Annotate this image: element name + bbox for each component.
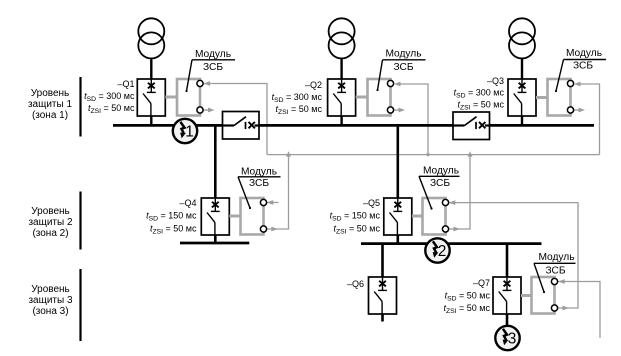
svg-text:–Q7: –Q7 bbox=[473, 278, 490, 288]
svg-text:Модуль: Модуль bbox=[195, 49, 231, 60]
wire module M2 input riser bbox=[398, 84, 428, 155]
wire Q6 feeder tail bbox=[381, 314, 384, 322]
arrow into M1 input bbox=[204, 81, 211, 86]
busbar section 3 (zone 1 right) bbox=[490, 124, 595, 127]
svg-text:защиты 1: защиты 1 bbox=[28, 99, 73, 110]
wire Q2 to bus bbox=[340, 116, 342, 126]
wire Q1 to bus bbox=[150, 116, 152, 126]
busbar section 2 (zone 1 middle) bbox=[259, 124, 454, 127]
svg-text:Модуль: Модуль bbox=[538, 252, 574, 263]
svg-text:Модуль: Модуль bbox=[423, 166, 459, 177]
wire M7 input stub bbox=[558, 282, 600, 339]
circuit breaker Q7 bbox=[493, 277, 521, 314]
zone 2 label text bbox=[28, 206, 73, 239]
arrow M4 riser junction bbox=[286, 151, 291, 156]
wire M1 output stub bbox=[203, 109, 208, 111]
wire ZSI cascade horizontal bbox=[267, 154, 600, 156]
wire module M5 output riser bbox=[449, 155, 470, 229]
module M1 label bbox=[185, 49, 235, 92]
ZSB module M3 bbox=[548, 79, 574, 116]
wire bus2 to Q6 bbox=[381, 244, 384, 277]
arrow M5 output bbox=[454, 227, 461, 232]
breaker Q7 labels bbox=[443, 278, 490, 315]
svg-text:Модуль: Модуль bbox=[241, 167, 277, 178]
ZSB module M4 bbox=[241, 198, 267, 235]
svg-text:Модуль: Модуль bbox=[566, 48, 602, 59]
wire Q7 to fault 3 bbox=[506, 314, 509, 326]
circuit breaker Q6 bbox=[369, 277, 397, 314]
zone 1 bracket bar bbox=[79, 77, 81, 137]
circuit breaker Q1 bbox=[137, 79, 165, 116]
wire M2 output stub bbox=[394, 109, 399, 111]
arrow into M3 input bbox=[574, 82, 581, 87]
svg-text:ЗСБ: ЗСБ bbox=[545, 266, 565, 277]
transformer T3 bbox=[509, 18, 535, 79]
arrow M3 output bbox=[579, 108, 586, 113]
svg-text:ЗСБ: ЗСБ bbox=[203, 62, 223, 73]
svg-text:Уровень: Уровень bbox=[31, 88, 70, 99]
svg-text:–Q3: –Q3 bbox=[487, 76, 504, 86]
wire module M1 input riser bbox=[204, 84, 267, 155]
svg-text:защиты 2: защиты 2 bbox=[28, 217, 73, 228]
circuit breaker Q4 bbox=[201, 198, 229, 235]
wire bus to Q4 bbox=[214, 125, 217, 198]
wire M3 output stub bbox=[574, 109, 579, 111]
svg-text:Уровень: Уровень bbox=[31, 206, 70, 217]
circuit breaker Q3 bbox=[508, 79, 536, 116]
arrow M4 output bbox=[271, 227, 278, 232]
svg-text:ЗСБ: ЗСБ bbox=[573, 61, 593, 72]
ZSB module M5 bbox=[423, 198, 449, 235]
wire module M4 input stub bbox=[267, 202, 279, 204]
wire Q7 to module M7 bbox=[521, 294, 532, 297]
arrow into M7 input bbox=[558, 279, 565, 284]
svg-text:–Q5: –Q5 bbox=[363, 198, 380, 208]
circuit breaker Q5 bbox=[384, 198, 412, 235]
fault indicator 2 bbox=[425, 238, 449, 262]
busbar stub under Q4 (zone 2 left) bbox=[180, 242, 249, 245]
wire Q4 to stub bus bbox=[214, 235, 217, 243]
breaker Q2 labels bbox=[272, 80, 323, 116]
ZSB module M1 bbox=[177, 79, 203, 116]
arrow M5 riser junction bbox=[468, 151, 473, 156]
svg-text:–Q2: –Q2 bbox=[305, 80, 322, 90]
arrow M1 output bbox=[208, 108, 215, 113]
wire module M3 input riser bbox=[577, 84, 600, 155]
wire Q1 to module M1 bbox=[165, 96, 177, 99]
ZSB module M2 bbox=[368, 79, 394, 116]
wire M7 output to M5 input bbox=[449, 203, 578, 308]
zone 2 bracket bar bbox=[79, 192, 81, 250]
circuit breaker Q2 bbox=[328, 79, 356, 116]
svg-text:–Q1: –Q1 bbox=[117, 79, 134, 89]
busbar zone 2 bbox=[361, 242, 542, 245]
svg-text:(зона 2): (зона 2) bbox=[32, 228, 68, 239]
svg-text:ЗСБ: ЗСБ bbox=[430, 178, 450, 189]
svg-text:(зона 1): (зона 1) bbox=[32, 110, 68, 121]
svg-text:3: 3 bbox=[508, 330, 517, 347]
breaker Q3 labels bbox=[454, 76, 505, 112]
module M5 label bbox=[419, 166, 460, 210]
wire Q5 to module M5 bbox=[412, 215, 423, 218]
svg-text:1: 1 bbox=[185, 123, 194, 140]
svg-text:защиты 3: защиты 3 bbox=[28, 295, 73, 306]
wire bus2 to Q7 bbox=[506, 244, 509, 277]
transformer T2 bbox=[329, 18, 355, 79]
module M3 label bbox=[555, 48, 606, 92]
zone 3 label text bbox=[28, 284, 73, 317]
arrow M2 output bbox=[399, 108, 406, 113]
zone 3 bracket bar bbox=[79, 269, 81, 341]
wire Q4 to module M4 bbox=[229, 215, 240, 218]
svg-text:(зона 3): (зона 3) bbox=[32, 306, 68, 317]
module M2 label bbox=[376, 49, 425, 92]
module M4 label bbox=[238, 167, 281, 210]
wire module M4 output riser bbox=[267, 155, 289, 229]
junction dot M2 riser bbox=[426, 153, 429, 156]
wire Q5 to zone2 bus bbox=[396, 235, 399, 244]
svg-text:–Q4: –Q4 bbox=[179, 198, 196, 208]
zone 1 label text bbox=[28, 88, 73, 121]
busbar section 1 (zone 1 left) bbox=[113, 124, 223, 127]
wire bus to Q5 bbox=[396, 125, 399, 198]
fault indicator 3 bbox=[495, 326, 519, 350]
ZSB module M7 bbox=[532, 277, 558, 314]
svg-text:Модуль: Модуль bbox=[385, 49, 421, 60]
wire Q3 to module M3 bbox=[536, 96, 548, 99]
svg-text:ЗСБ: ЗСБ bbox=[249, 178, 269, 189]
arrow into M5 input bbox=[449, 200, 456, 205]
svg-text:Уровень: Уровень bbox=[31, 284, 70, 295]
transformer T1 bbox=[138, 18, 164, 79]
svg-text:2: 2 bbox=[438, 243, 447, 260]
bus coupler 1 bbox=[223, 112, 260, 140]
wire Q2 to module M2 bbox=[356, 96, 368, 99]
arrow into M2 input bbox=[394, 82, 401, 87]
fault indicator 1 bbox=[173, 119, 197, 143]
arrow M7 output bbox=[563, 306, 570, 311]
module M7 label bbox=[534, 252, 576, 293]
svg-text:ЗСБ: ЗСБ bbox=[393, 62, 413, 73]
arrow into M4 input bbox=[267, 200, 274, 205]
breaker Q1 labels bbox=[84, 79, 135, 115]
breaker Q4 labels bbox=[146, 198, 197, 236]
svg-text:–Q6: –Q6 bbox=[347, 279, 364, 289]
bus coupler 2 bbox=[453, 112, 490, 140]
wire Q3 to bus bbox=[521, 116, 523, 126]
breaker Q5 labels bbox=[330, 198, 381, 236]
